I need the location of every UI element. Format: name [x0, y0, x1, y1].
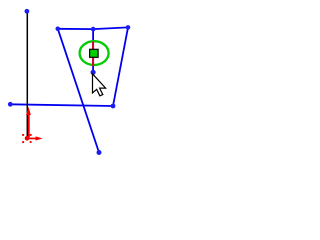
- wire: trapezoid right side: [113, 27, 128, 106]
- node: trapezoid top-left corner dot: [56, 27, 61, 32]
- red highlighted segment of vertical line inside circle: [92, 42, 94, 67]
- origin marker: red X axis arrow: [28, 136, 43, 140]
- highlight circle (green) around selected point: [80, 41, 109, 65]
- node: blue endpoint dot top of black line: [25, 9, 30, 14]
- origin marker: red Y axis arrow: [26, 107, 31, 139]
- node: trapezoid top-right corner dot: [126, 25, 131, 30]
- node: junction dot right end of horizontal line / bottom of right side: [111, 104, 116, 109]
- mouse cursor arrow: [93, 74, 106, 96]
- node: top edge midpoint dot: [91, 27, 96, 32]
- origin marker: center disk: [25, 136, 30, 141]
- node: vertex dot at bottom of vertical line: [91, 70, 96, 75]
- wire: blue horizontal sketch line: [10, 104, 113, 106]
- wire: trapezoid top edge right part: [93, 27, 128, 29]
- wire: vertical blue line from top edge midpoint down to vertex: [92, 29, 94, 72]
- wire: long diagonal line from top-left corner to bottom dot: [58, 29, 99, 153]
- node: dot at bottom end of long diagonal: [97, 150, 102, 155]
- green square point handle: [90, 49, 99, 57]
- wire: trapezoid top edge left part: [58, 28, 93, 30]
- wire: black vertical construction line: [26, 11, 28, 137]
- node: blue endpoint dot left end of horizontal line: [8, 102, 13, 107]
- origin marker: four corner squares: [22, 134, 31, 143]
